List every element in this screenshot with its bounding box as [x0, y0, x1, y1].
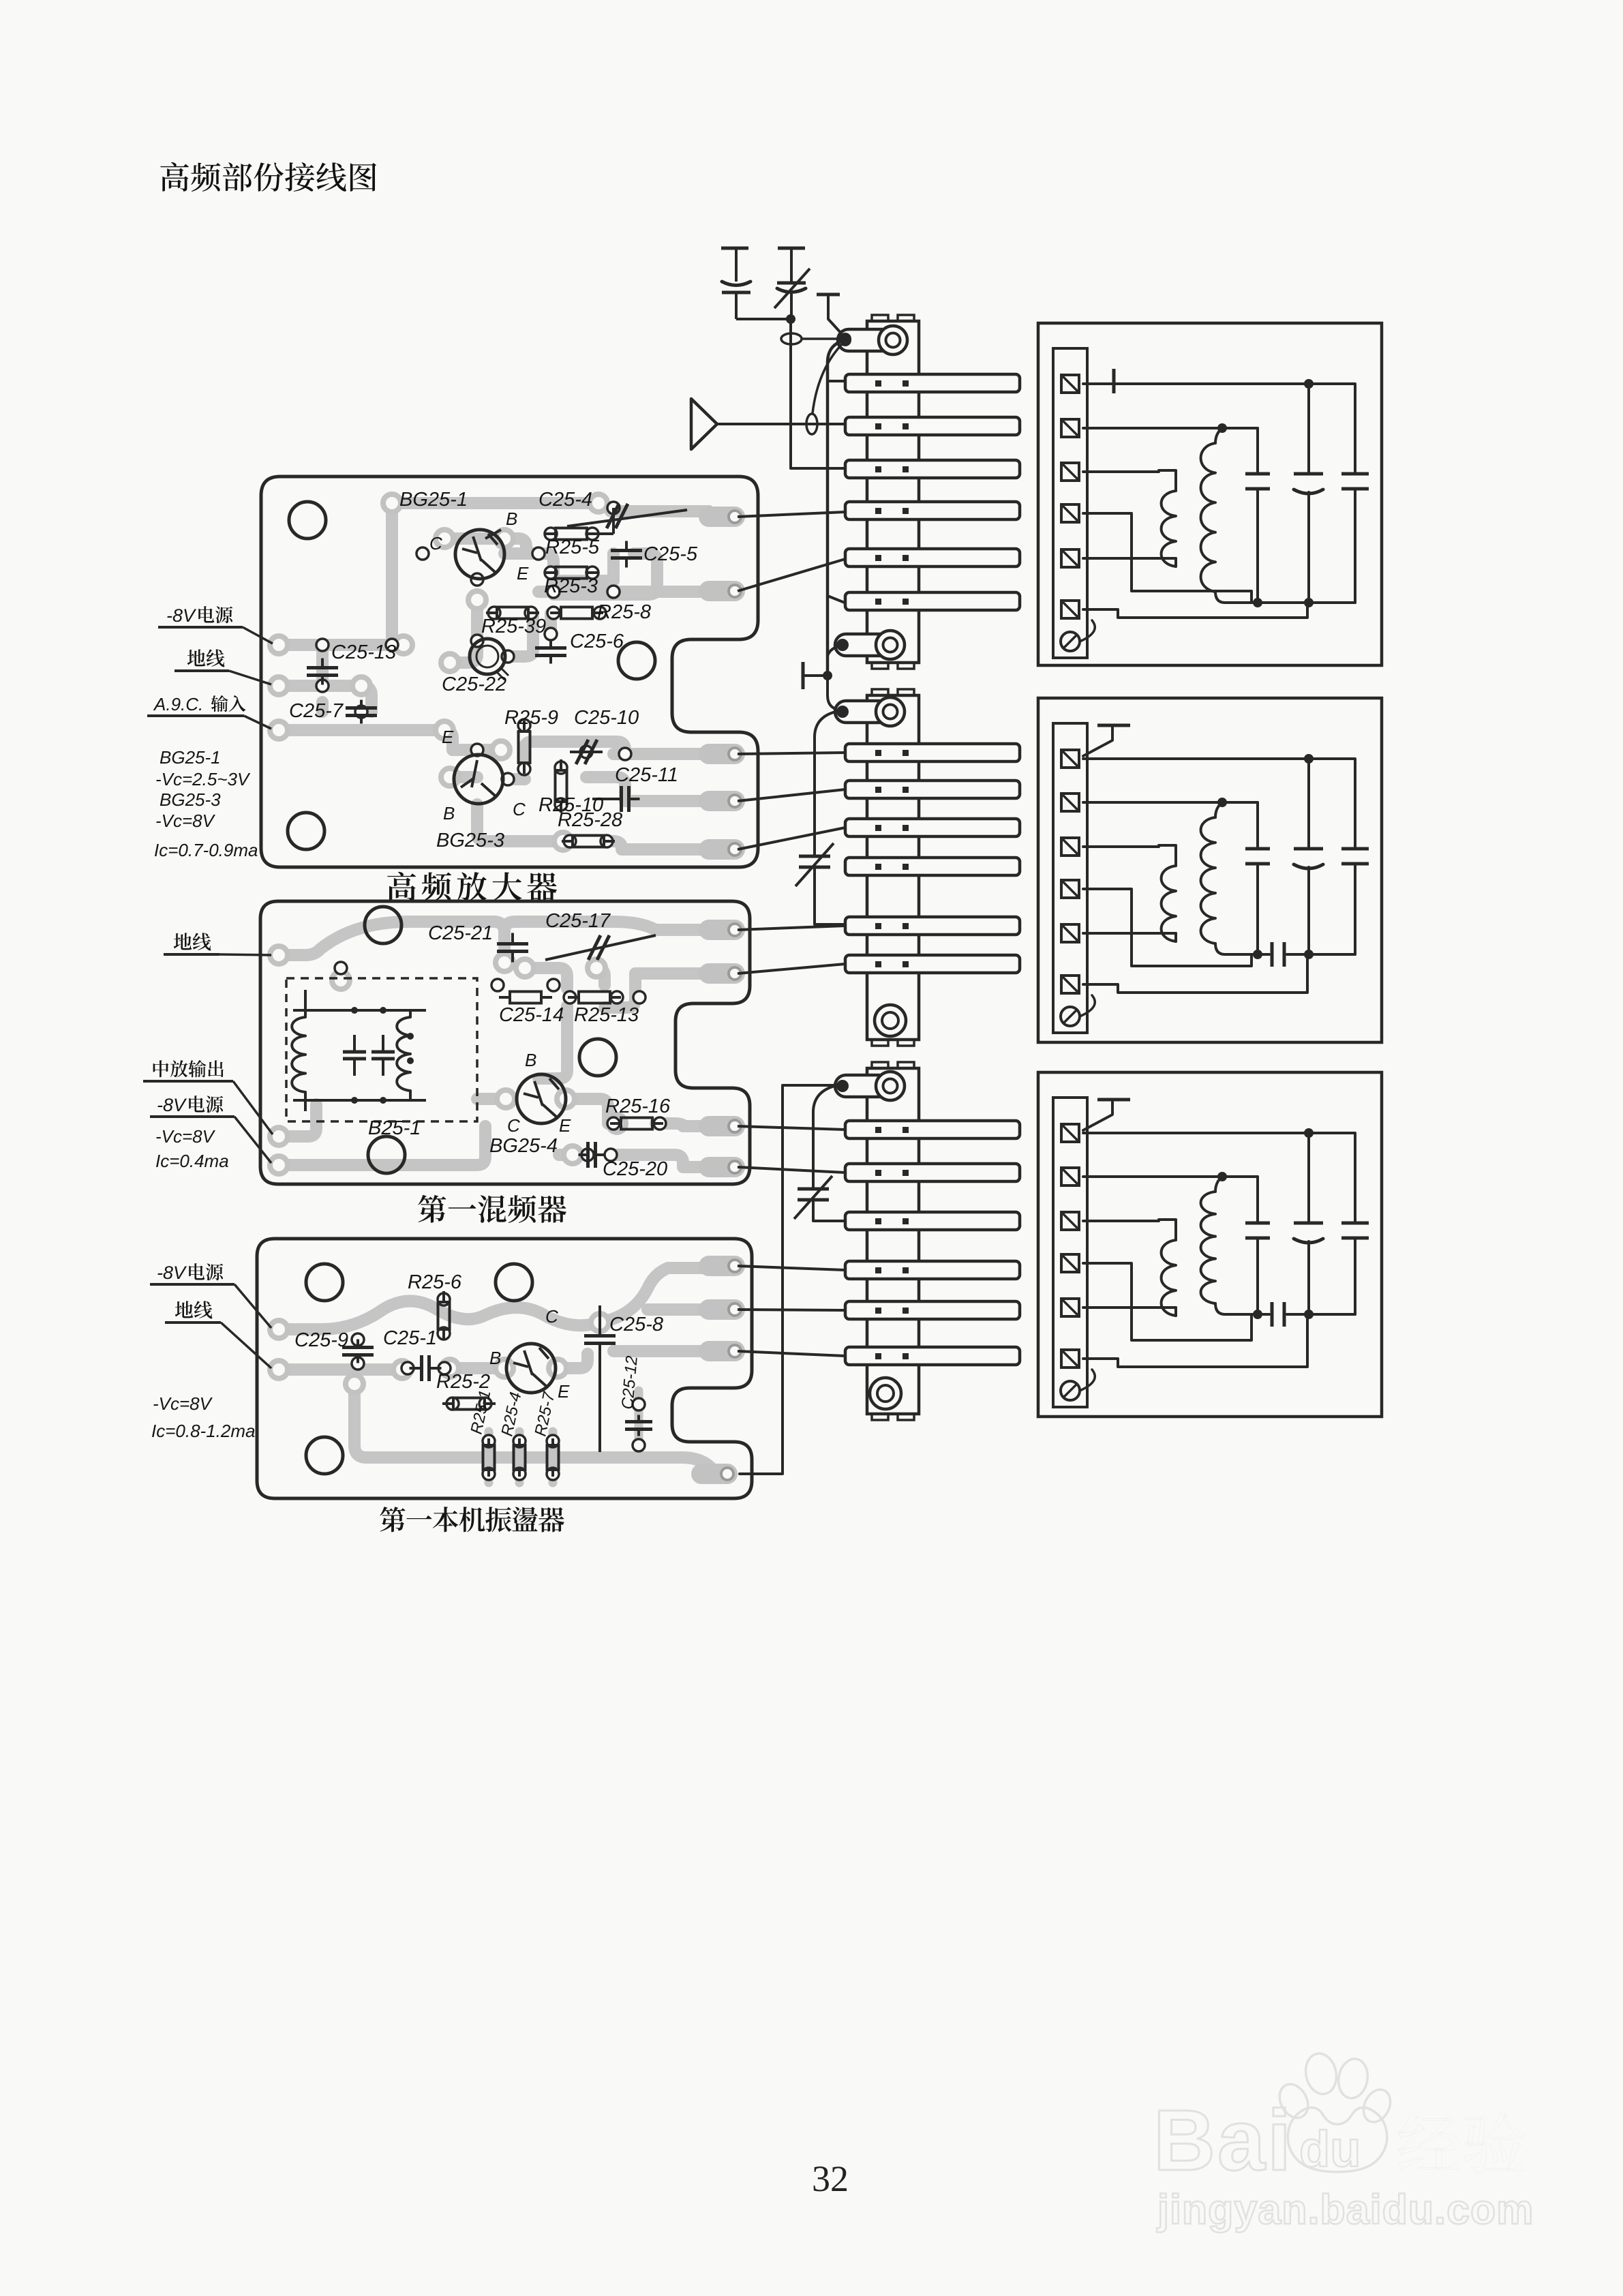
svg-text:-Vc=2.5~3V: -Vc=2.5~3V — [155, 769, 251, 789]
svg-text:C25-21: C25-21 — [428, 922, 493, 944]
svg-text:Ic=0.4ma: Ic=0.4ma — [155, 1151, 229, 1171]
svg-text:C: C — [507, 1115, 520, 1136]
svg-text:BG25-1: BG25-1 — [160, 747, 221, 768]
svg-text:C25-4: C25-4 — [539, 489, 592, 511]
svg-text:C25-5: C25-5 — [643, 543, 698, 565]
svg-text:Bai: Bai — [1153, 2092, 1293, 2188]
svg-text:R25-3: R25-3 — [544, 575, 598, 597]
svg-text:R25-16: R25-16 — [605, 1096, 671, 1117]
svg-text:B: B — [443, 803, 455, 824]
svg-text:C25-8: C25-8 — [609, 1314, 663, 1335]
svg-text:C25-10: C25-10 — [574, 707, 639, 729]
svg-text:-8V: -8V — [157, 1263, 187, 1283]
svg-text:-Vc=8V: -Vc=8V — [155, 1126, 216, 1147]
svg-text:32: 32 — [812, 2158, 849, 2199]
svg-text:-8V: -8V — [157, 1095, 187, 1115]
svg-text:jingyan.baidu.com: jingyan.baidu.com — [1157, 2186, 1534, 2233]
svg-text:R25-2: R25-2 — [436, 1371, 490, 1393]
svg-text:BG25-3: BG25-3 — [436, 830, 504, 851]
svg-text:Ic=0.7-0.9ma: Ic=0.7-0.9ma — [154, 840, 258, 860]
svg-text:C25-17: C25-17 — [545, 910, 611, 932]
svg-text:BG25-3: BG25-3 — [160, 789, 221, 810]
svg-text:BG25-4: BG25-4 — [489, 1135, 558, 1157]
svg-text:C: C — [513, 799, 526, 819]
svg-text:C25-14: C25-14 — [499, 1004, 564, 1026]
svg-text:C: C — [429, 533, 442, 554]
svg-text:C25-6: C25-6 — [570, 631, 624, 652]
svg-text:R25-13: R25-13 — [574, 1004, 639, 1026]
svg-text:C25-11: C25-11 — [615, 764, 678, 786]
svg-text:C25-22: C25-22 — [442, 674, 506, 695]
svg-text:C: C — [545, 1306, 558, 1327]
svg-text:R25-9: R25-9 — [504, 707, 558, 729]
svg-text:R25-8: R25-8 — [597, 601, 651, 623]
svg-text:B: B — [489, 1348, 501, 1368]
svg-text:C25-9: C25-9 — [294, 1329, 348, 1351]
svg-text:E: E — [559, 1115, 571, 1136]
svg-text:-Vc=8V: -Vc=8V — [153, 1393, 213, 1414]
svg-text:R25-6: R25-6 — [408, 1271, 462, 1293]
svg-text:C25-20: C25-20 — [603, 1158, 667, 1180]
svg-text:Ic=0.8-1.2ma: Ic=0.8-1.2ma — [151, 1421, 255, 1441]
svg-text:B25-1: B25-1 — [368, 1117, 421, 1139]
svg-text:R25-39: R25-39 — [481, 616, 546, 637]
svg-text:E: E — [558, 1381, 570, 1402]
svg-text:du: du — [1299, 2121, 1361, 2177]
svg-text:-8V: -8V — [166, 605, 197, 626]
svg-text:C25-1: C25-1 — [383, 1327, 437, 1349]
svg-text:-Vc=8V: -Vc=8V — [155, 811, 216, 831]
svg-text:A.9.C.: A.9.C. — [153, 694, 203, 714]
svg-text:C25-13: C25-13 — [331, 641, 396, 663]
svg-text:E: E — [442, 727, 454, 747]
svg-text:B: B — [506, 509, 517, 529]
svg-text:BG25-1: BG25-1 — [399, 489, 468, 511]
svg-text:E: E — [517, 563, 529, 584]
svg-text:R25-5: R25-5 — [545, 537, 600, 558]
svg-text:R25-28: R25-28 — [558, 809, 622, 831]
svg-text:B: B — [525, 1050, 536, 1070]
svg-text:C25-7: C25-7 — [289, 700, 344, 722]
